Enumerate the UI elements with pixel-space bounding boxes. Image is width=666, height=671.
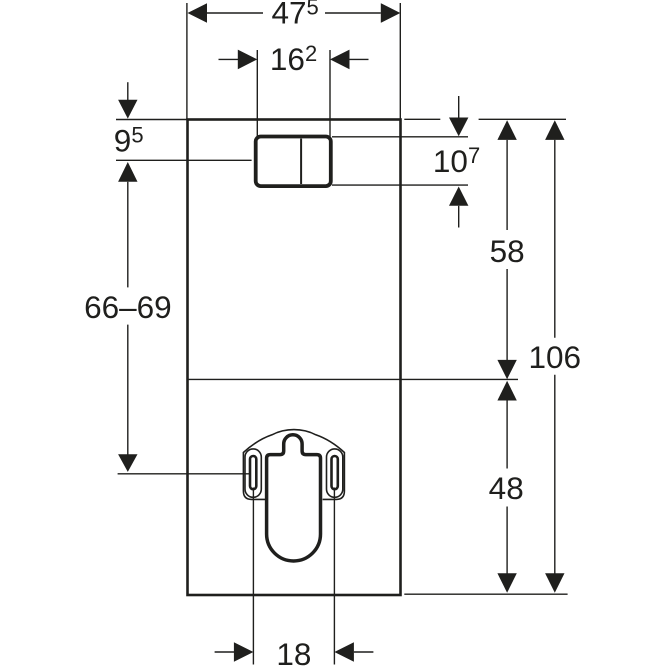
dim 16.2 left tick <box>256 50 258 137</box>
dim 106 line upper segment <box>554 140 556 338</box>
dim 10.7 lower arrow tail <box>458 206 460 228</box>
svg-text:66–69: 66–69 <box>84 289 172 325</box>
dim 47.5 right arrow <box>381 3 401 23</box>
dim 47.5 left arrow <box>188 3 208 23</box>
dim 18 right arrow <box>334 642 354 662</box>
dim 58 line lower segment <box>506 269 508 361</box>
dim 16.2 left tail <box>219 58 239 60</box>
right slot inner capsule <box>332 456 338 489</box>
dim 10.7 lower arrow <box>449 187 468 206</box>
svg-text:475: 475 <box>272 0 319 31</box>
top extension line segment A <box>404 118 440 120</box>
svg-text:107: 107 <box>433 143 480 179</box>
dim 16.2 right tick <box>329 50 331 137</box>
svg-text:95: 95 <box>114 123 144 159</box>
flush plate button divider <box>300 139 302 184</box>
top extension line segment B <box>479 118 566 120</box>
bracket outer dome <box>243 430 344 500</box>
dim 48 bottom arrow <box>497 573 516 593</box>
dim 47.5 line right tail <box>325 12 381 14</box>
left slot inner capsule <box>250 456 256 489</box>
left slot outer capsule <box>245 449 261 497</box>
svg-text:18: 18 <box>276 636 311 666</box>
dim 9.5 upper arrow <box>118 100 137 119</box>
dim 18 left extension line <box>252 488 254 665</box>
dim 9.5 top reference line <box>116 119 188 121</box>
dim 10.7 upper arrow <box>449 118 468 137</box>
dim 58 top arrow <box>497 120 516 140</box>
dim 106 top arrow <box>545 120 564 140</box>
dim 16.2 right arrow <box>330 50 350 70</box>
dim 9.5 bottom reference line <box>116 159 252 161</box>
dim 58 bottom arrow <box>497 360 516 379</box>
dim 16.2 right tail <box>350 58 369 60</box>
dim 18 left arrow <box>234 642 254 662</box>
dim 106 bottom arrow <box>545 573 564 593</box>
dim 47.5 right extension line <box>399 3 401 120</box>
dim 66-69 line lower segment <box>127 325 129 455</box>
dim 9.5 lower arrow <box>118 162 137 182</box>
dim 106 line lower segment <box>554 375 556 574</box>
svg-text:58: 58 <box>490 233 525 269</box>
dim 58 line upper segment <box>506 140 508 230</box>
dim 10.7 bottom reference line <box>332 184 468 186</box>
dim 47.5 line left tail <box>207 12 263 14</box>
dim 10.7 top reference line <box>332 136 468 138</box>
dim 66-69 line upper segment <box>127 182 129 288</box>
ceramic cutout flask <box>267 435 321 561</box>
dim 66-69 bottom arrow <box>118 454 137 472</box>
dim 66-69 bottom reference line <box>118 473 250 475</box>
svg-text:48: 48 <box>489 470 524 506</box>
dim 10.7 upper arrow tail <box>458 96 460 118</box>
svg-text:162: 162 <box>270 41 317 77</box>
dim 48 line upper segment <box>506 401 508 469</box>
dim 18 right tail <box>354 651 374 653</box>
dim 48 line lower segment <box>506 507 508 574</box>
dim 9.5 upper arrow tail <box>127 82 129 100</box>
dim 16.2 left arrow <box>238 50 257 70</box>
panel mid joint line <box>188 378 519 380</box>
svg-text:106: 106 <box>529 339 582 375</box>
dim 18 left tail <box>215 651 235 653</box>
dim 47.5 left extension line <box>186 3 188 120</box>
dim 48 top arrow <box>497 381 516 401</box>
right slot outer capsule <box>327 449 343 497</box>
bottom reference line <box>404 593 567 595</box>
dim 18 right extension line <box>333 488 335 665</box>
panel outline <box>188 120 401 596</box>
flush plate outer frame <box>256 137 331 187</box>
